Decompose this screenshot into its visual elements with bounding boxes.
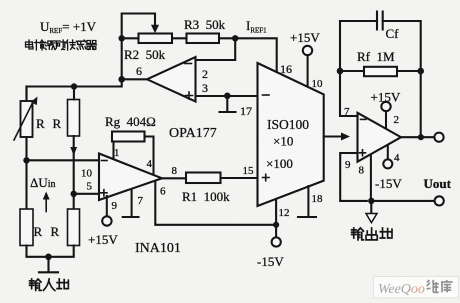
resistor R (bridge bottom-left) bbox=[20, 209, 33, 246]
svg-text:R: R bbox=[36, 116, 45, 131]
wire U2 pin2 bbox=[385, 111, 387, 128]
svg-text:4: 4 bbox=[147, 158, 153, 170]
wire R3 to node bbox=[219, 37, 235, 39]
svg-text:7: 7 bbox=[138, 195, 144, 207]
svg-text:9: 9 bbox=[345, 159, 351, 171]
svg-text:R: R bbox=[53, 116, 62, 131]
terminal +15V INA101 bbox=[102, 216, 111, 225]
watermark 维库 bbox=[427, 280, 453, 292]
svg-text:15: 15 bbox=[243, 165, 255, 177]
svg-text:R1 100k: R1 100k bbox=[182, 189, 230, 204]
wire R2 to R3 bbox=[172, 37, 187, 39]
wire U2 output bbox=[401, 136, 435, 138]
wire INA101 pin7 ground bbox=[123, 189, 139, 217]
node bridge left mid bbox=[23, 157, 29, 163]
resistor R1 bbox=[186, 173, 221, 184]
node R2 left bottom bbox=[118, 76, 125, 83]
svg-text:WeeQoo: WeeQoo bbox=[378, 282, 425, 297]
svg-text:-15V: -15V bbox=[257, 254, 284, 269]
wire node to pin16 bbox=[235, 38, 277, 72]
svg-text:7: 7 bbox=[344, 106, 350, 118]
terminal +15V U2 bbox=[381, 102, 390, 111]
op-amp OPA177 bbox=[147, 57, 196, 102]
resistor R (bridge bottom-right) bbox=[68, 209, 80, 246]
node IREF bbox=[232, 35, 238, 41]
label 电桥激励传感器 (bridge excitation sensor) bbox=[26, 40, 97, 50]
svg-text:R2 50k: R2 50k bbox=[124, 47, 166, 62]
wire INA101 minus input bbox=[27, 159, 100, 161]
minus mark INA101 bbox=[102, 160, 108, 162]
plus mark ISO100 bbox=[263, 174, 270, 180]
svg-text:INA101: INA101 bbox=[135, 241, 181, 256]
node R2 left terminal bbox=[119, 35, 125, 41]
op-amp U2 output bbox=[358, 113, 402, 162]
wire bridge bottom rail bbox=[27, 246, 74, 257]
svg-text:1: 1 bbox=[114, 147, 120, 159]
minus mark OPA177 bbox=[185, 63, 192, 65]
node bridge bottom bbox=[45, 253, 52, 260]
arrow dUin bbox=[45, 196, 47, 212]
plus mark INA101 bbox=[101, 190, 107, 196]
svg-text:10: 10 bbox=[81, 168, 93, 180]
output ground arrow bbox=[370, 201, 372, 213]
svg-text:4: 4 bbox=[394, 152, 400, 164]
terminal Uout bbox=[435, 196, 444, 205]
svg-text:R3 50k: R3 50k bbox=[184, 17, 226, 32]
wire Rg pin4 bbox=[145, 137, 154, 176]
node U2 output bbox=[418, 134, 424, 140]
wire R2 left riser bbox=[122, 14, 155, 80]
wire Rf right bbox=[397, 70, 421, 72]
svg-text:2: 2 bbox=[394, 114, 400, 126]
svg-text:17: 17 bbox=[240, 104, 252, 118]
node pin3 bbox=[224, 93, 231, 100]
wire R1 to ISO100 bbox=[221, 177, 258, 179]
wiper arrow R2 bbox=[151, 25, 159, 34]
svg-text:3: 3 bbox=[202, 81, 208, 95]
wire pin12 bbox=[275, 199, 277, 237]
ground pin17 bbox=[220, 96, 236, 112]
wire feedback left rail bbox=[340, 21, 377, 116]
label 输出地 (output ground) bbox=[352, 228, 392, 240]
terminal -15V ISO100 bbox=[272, 237, 281, 246]
svg-text:12: 12 bbox=[279, 207, 290, 219]
svg-text:R: R bbox=[34, 224, 43, 239]
wire U2 plus input rail bbox=[340, 153, 367, 201]
wire U2 pin8 bbox=[370, 156, 372, 201]
node Rf right bbox=[417, 68, 424, 75]
svg-text:10: 10 bbox=[312, 78, 324, 90]
wire R2 left stub bbox=[122, 37, 139, 39]
svg-text:-15V: -15V bbox=[375, 176, 402, 191]
wire ISO100 output arrow bbox=[324, 135, 342, 137]
svg-text:UREF= +1V: UREF= +1V bbox=[40, 19, 97, 35]
svg-text:OPA177: OPA177 bbox=[169, 126, 217, 141]
op-amp INA101 bbox=[99, 154, 162, 201]
label 输入地 (input ground) bbox=[30, 279, 69, 291]
resistor Rf bbox=[364, 67, 397, 76]
terminal +15V ISO100 bbox=[303, 46, 312, 55]
svg-text:6: 6 bbox=[136, 64, 142, 78]
minus mark ISO100 bbox=[263, 94, 270, 96]
wire pin10 bbox=[307, 55, 309, 85]
wire U2 pin4 bbox=[387, 145, 389, 159]
svg-text:Rg 404Ω: Rg 404Ω bbox=[105, 114, 156, 129]
node pin12 bbox=[273, 222, 279, 228]
resistor Rg bbox=[112, 132, 145, 142]
terminal -15V U2 bbox=[383, 159, 392, 168]
node bridge right mid bbox=[71, 191, 77, 197]
wire bridge top rail bbox=[27, 79, 147, 96]
wire cap to right rail bbox=[383, 21, 421, 137]
svg-text:+15V: +15V bbox=[290, 30, 320, 45]
watermark box bbox=[374, 277, 459, 299]
svg-text:Uout: Uout bbox=[424, 176, 452, 191]
node output ground bbox=[368, 198, 374, 204]
svg-text:×100: ×100 bbox=[266, 156, 293, 171]
svg-text:Cf: Cf bbox=[386, 26, 400, 41]
terminal output top bbox=[434, 133, 443, 142]
svg-text:18: 18 bbox=[312, 193, 324, 205]
svg-text:+15V: +15V bbox=[88, 232, 118, 247]
svg-text:5: 5 bbox=[87, 181, 93, 193]
wire Rf left bbox=[340, 70, 364, 72]
svg-text:Rf 1M: Rf 1M bbox=[357, 49, 395, 64]
wire INA101 pin6 drop bbox=[155, 181, 276, 225]
plus mark OPA177 bbox=[186, 92, 193, 99]
node Rf left bbox=[337, 68, 344, 75]
minus mark U2 bbox=[361, 118, 367, 120]
wire INA101 pin9 bbox=[106, 196, 108, 216]
variable resistor R (bridge top-left) bbox=[14, 87, 38, 141]
svg-text:8: 8 bbox=[172, 165, 178, 177]
svg-text:8: 8 bbox=[359, 165, 365, 177]
wire to Uout bbox=[371, 200, 434, 202]
plus mark U2 bbox=[360, 150, 366, 156]
current arrow on right branch bbox=[70, 147, 77, 156]
resistor R3 bbox=[187, 34, 220, 44]
svg-text:9: 9 bbox=[112, 200, 118, 212]
wire INA101 plus input bbox=[74, 193, 99, 195]
wire OPA177 pin2 bbox=[196, 41, 236, 60]
wire Rg pin1 bbox=[112, 142, 114, 160]
node bridge top mid bbox=[71, 83, 77, 89]
wire INA101 output pin8 bbox=[162, 177, 186, 179]
ground pin18 bbox=[298, 186, 316, 217]
svg-text:+15V: +15V bbox=[371, 90, 401, 105]
input ground bbox=[39, 257, 58, 273]
isolation amp ISO100 bbox=[258, 63, 324, 206]
svg-text:ISO100: ISO100 bbox=[267, 117, 309, 132]
svg-text:2: 2 bbox=[202, 67, 208, 81]
capacitor Cf bbox=[377, 12, 383, 30]
svg-text:×10: ×10 bbox=[273, 134, 293, 149]
wire bridge right branch bbox=[73, 87, 75, 210]
wire bridge left mid bbox=[25, 137, 27, 209]
resistor R (bridge top-right) bbox=[68, 100, 80, 137]
label U_REF = +1V bbox=[40, 19, 97, 35]
potentiometer R2 bbox=[139, 34, 173, 44]
svg-text:6: 6 bbox=[160, 186, 166, 198]
wire OPA177 pin3 to ISO100 bbox=[196, 95, 258, 97]
svg-text:R: R bbox=[51, 224, 60, 239]
